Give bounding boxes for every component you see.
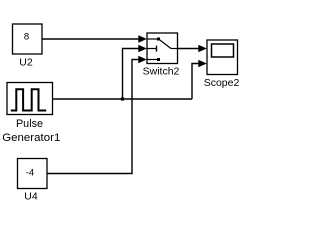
switch block Switch2: [147, 33, 178, 64]
pulse waveform icon: [11, 89, 46, 110]
svg-text:U4: U4: [24, 191, 38, 203]
switch icon port1 stub: [147, 38, 158, 40]
switch icon port1 dot: [157, 38, 160, 41]
svg-text:-4: -4: [26, 168, 34, 179]
junction dot on pulse wire: [121, 97, 124, 100]
arrowhead into Switch2 port2: [138, 45, 147, 53]
scope screen icon: [212, 44, 234, 57]
scope block Scope2: [207, 40, 238, 75]
arrowhead into Scope2 port1: [198, 45, 207, 53]
wire Switch2 output to Scope2 port1: [178, 48, 201, 50]
switch icon port3 dot: [157, 58, 160, 61]
svg-text:Generator1: Generator1: [2, 132, 60, 144]
wire Pulse Generator1 output horizontal: [53, 98, 193, 100]
switch icon output stub: [171, 48, 178, 50]
constant block U4: [18, 159, 48, 189]
switch icon port3 stub: [147, 59, 158, 61]
svg-text:U2: U2: [19, 56, 33, 68]
wire U4 to Switch2 port3: [47, 60, 140, 174]
svg-text:Pulse: Pulse: [16, 118, 43, 130]
arrowhead into Scope2 port2: [198, 60, 207, 68]
arrowhead into Switch2 port3: [138, 56, 147, 64]
arrowhead into Switch2 port1: [138, 35, 147, 43]
wire branch up to Switch2 port2: [123, 49, 141, 100]
svg-text:Scope2: Scope2: [204, 77, 240, 89]
pulse generator block Pulse Generator1: [7, 83, 53, 115]
switch icon port2 stub: [147, 48, 157, 50]
switch icon diagonal: [159, 39, 172, 49]
svg-text:8: 8: [24, 32, 29, 43]
constant block U2: [13, 24, 43, 54]
wire U2 to Switch2 port1: [42, 38, 140, 40]
wire pulse signal up to Scope2 port2: [192, 64, 200, 100]
switch icon port2 tick: [156, 46, 158, 52]
svg-text:Switch2: Switch2: [143, 66, 180, 78]
